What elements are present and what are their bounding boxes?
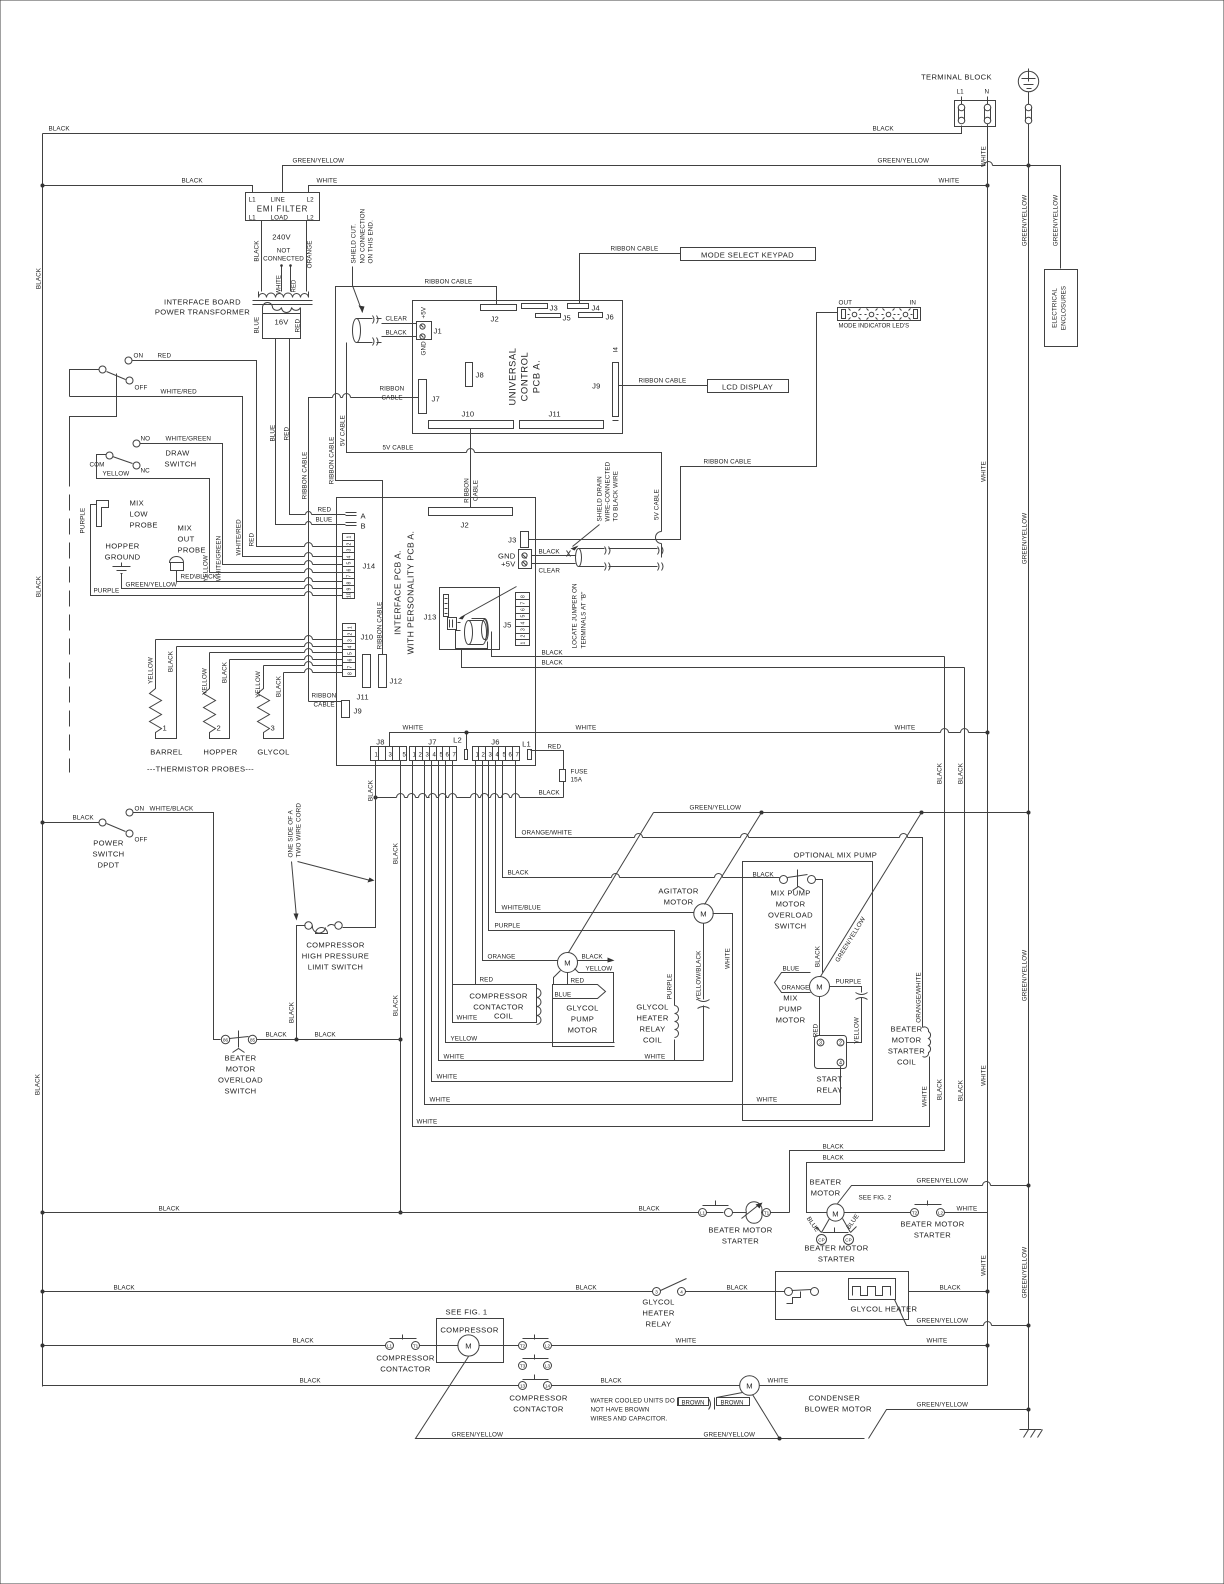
- svg-text:OUT: OUT: [839, 300, 853, 307]
- mix pump overload switch: [780, 876, 788, 884]
- connector J9 (interface): [342, 701, 350, 718]
- svg-text:240V: 240V: [272, 233, 291, 242]
- svg-text:MIX: MIX: [130, 499, 145, 508]
- shield connect X: [567, 551, 571, 557]
- svg-text:OVERLOAD: OVERLOAD: [768, 911, 813, 920]
- svg-text:BLACK: BLACK: [266, 1032, 288, 1039]
- svg-text:RED: RED: [295, 319, 302, 333]
- svg-text:WHITE: WHITE: [981, 1065, 988, 1086]
- connector J2 (interface): [429, 508, 513, 516]
- svg-text:J3: J3: [550, 304, 558, 313]
- svg-text:BLACK: BLACK: [753, 872, 775, 879]
- svg-text:85: 85: [250, 1038, 256, 1043]
- svg-text:L1: L1: [387, 1344, 393, 1349]
- J13 cylinder cap: [465, 621, 473, 645]
- svg-text:WHITE: WHITE: [939, 178, 960, 185]
- svg-text:+5V: +5V: [421, 306, 428, 318]
- svg-text:BEATER MOTOR: BEATER MOTOR: [708, 1226, 772, 1235]
- wire BLACK fuse to J8p1: [376, 782, 564, 798]
- svg-text:GREEN/YELLOW: GREEN/YELLOW: [917, 1402, 969, 1409]
- svg-text:RED: RED: [249, 533, 256, 547]
- svg-text:BLOWER MOTOR: BLOWER MOTOR: [805, 1405, 873, 1414]
- svg-text:PUMP: PUMP: [779, 1005, 802, 1014]
- svg-text:GREEN/YELLOW: GREEN/YELLOW: [1022, 513, 1029, 565]
- svg-text:13: 13: [520, 1384, 526, 1389]
- svg-text:CLEAR: CLEAR: [539, 568, 561, 575]
- svg-text:CONDENSER: CONDENSER: [809, 1394, 861, 1403]
- svg-text:J2: J2: [461, 521, 469, 530]
- svg-text:L2: L2: [545, 1344, 551, 1349]
- svg-text:BLACK: BLACK: [254, 240, 261, 262]
- svg-text:GREEN/YELLOW: GREEN/YELLOW: [704, 1432, 756, 1439]
- glycol heater thermostat: [785, 1288, 793, 1296]
- wire BLACK top bus L1: [43, 126, 962, 134]
- svg-text:1: 1: [347, 536, 353, 539]
- svg-text:MOTOR: MOTOR: [568, 1026, 598, 1035]
- svg-text:TWO WIRE CORD: TWO WIRE CORD: [296, 803, 303, 858]
- svg-text:A: A: [361, 512, 367, 521]
- svg-text:BROWN: BROWN: [721, 1401, 744, 1407]
- svg-text:ORANGE: ORANGE: [307, 241, 314, 269]
- svg-text:PURPLE: PURPLE: [495, 923, 521, 930]
- svg-text:BLACK: BLACK: [289, 1001, 296, 1023]
- svg-text:NO: NO: [141, 436, 151, 443]
- SEC2: [70, 353, 343, 774]
- svg-text:WHITE/GREEN: WHITE/GREEN: [166, 436, 212, 443]
- svg-text:WHITE/BLACK: WHITE/BLACK: [150, 806, 194, 813]
- svg-text:RIBBON CABLE: RIBBON CABLE: [302, 452, 309, 500]
- svg-text:L2: L2: [307, 197, 315, 204]
- svg-text:5V CABLE: 5V CABLE: [340, 415, 347, 446]
- wire pressure switch left down: [297, 926, 306, 1040]
- svg-text:LOAD: LOAD: [271, 215, 289, 222]
- wire ribbon cable univ J2 to interface J12: [336, 287, 497, 655]
- svg-text:ORANGE: ORANGE: [782, 985, 810, 992]
- wire green/yellow from beater motor: [838, 1186, 1029, 1204]
- svg-text:LOCATE JUMPER ON: LOCATE JUMPER ON: [572, 583, 579, 649]
- svg-text:GREEN/YELLOW: GREEN/YELLOW: [917, 1178, 969, 1185]
- glycol pump motor: [558, 953, 578, 973]
- overload element beater starter: [733, 1202, 763, 1224]
- svg-text:RED: RED: [480, 977, 494, 984]
- svg-text:BLACK: BLACK: [601, 1378, 623, 1385]
- svg-text:IN: IN: [910, 300, 917, 307]
- svg-text:RELAY: RELAY: [639, 1025, 665, 1034]
- connector J14 (interface): [343, 534, 355, 599]
- svg-text:BLACK: BLACK: [823, 1144, 845, 1151]
- connector J7 (universal): [419, 380, 427, 414]
- svg-text:RIBBON CABLE: RIBBON CABLE: [329, 437, 336, 485]
- svg-text:J11: J11: [357, 693, 369, 702]
- svg-text:OFF: OFF: [135, 837, 148, 844]
- wire left BLACK bus vertical: [42, 134, 44, 1387]
- svg-text:RED: RED: [284, 427, 291, 441]
- svg-text:3: 3: [819, 1041, 822, 1047]
- connector J8 (universal): [466, 363, 473, 387]
- svg-text:BLACK: BLACK: [576, 1285, 598, 1292]
- start relay: [815, 1036, 847, 1069]
- svg-text:PCB A.: PCB A.: [532, 360, 542, 394]
- svg-text:J3: J3: [508, 536, 516, 545]
- svg-text:MIX PUMP: MIX PUMP: [770, 889, 810, 898]
- glycol heater box: [776, 1272, 909, 1320]
- svg-text:BLACK: BLACK: [958, 762, 965, 784]
- wire RED L1 to fuse: [531, 751, 564, 770]
- svg-text:BLACK: BLACK: [508, 870, 530, 877]
- svg-text:COMPRESSOR: COMPRESSOR: [440, 1326, 499, 1335]
- svg-text:BLACK: BLACK: [159, 1206, 181, 1213]
- svg-text:ON: ON: [135, 806, 145, 813]
- wire ribbon cable univ J7 to interface J9: [309, 398, 419, 702]
- wire yellow glycol pump: [575, 969, 614, 1043]
- beater motor starter right contacts: [845, 1212, 911, 1214]
- svg-text:INTERFACE PCB A.: INTERFACE PCB A.: [393, 550, 403, 635]
- compressor motor M: [458, 1335, 479, 1356]
- beater motor overload switch: [221, 1035, 229, 1043]
- svg-text:2: 2: [348, 633, 354, 636]
- wire yellow capacitor to start relay: [847, 998, 862, 1043]
- svg-text:CABLE: CABLE: [382, 395, 403, 402]
- svg-text:STARTER: STARTER: [888, 1047, 925, 1056]
- svg-text:M: M: [816, 983, 823, 992]
- svg-text:BLACK: BLACK: [73, 815, 95, 822]
- interface PCB A. with personality PCB A.: [337, 498, 536, 766]
- svg-text:SHIELD DRAIN: SHIELD DRAIN: [597, 476, 604, 522]
- svg-text:WHITE: WHITE: [437, 1074, 458, 1081]
- svg-text:STARTER: STARTER: [914, 1231, 951, 1240]
- connector J3 (universal): [522, 304, 548, 309]
- wire GREEN/YELLOW from EMI line terminal: [283, 166, 1061, 269]
- J13 jumper plug: [448, 618, 457, 630]
- svg-text:CONTACTOR: CONTACTOR: [473, 1003, 524, 1012]
- svg-text:L1: L1: [957, 89, 965, 96]
- svg-text:WHITE: WHITE: [430, 1097, 451, 1104]
- wire GREEN/YELLOW bus: [1028, 124, 1030, 1430]
- svg-text:MOTOR: MOTOR: [892, 1036, 922, 1045]
- svg-text:J1: J1: [434, 327, 442, 336]
- beater motor M: [827, 1204, 844, 1221]
- svg-text:BLACK: BLACK: [958, 1079, 965, 1101]
- wire J6p4 WHITE/BLUE cascade: [496, 761, 694, 913]
- svg-text:CP: CP: [845, 1238, 851, 1243]
- capacitor mix pump: [856, 993, 868, 1000]
- svg-text:PURPLE: PURPLE: [80, 508, 87, 534]
- wire CLEAR to +5V: [532, 563, 576, 565]
- wire green/yellow compressor ground: [416, 1357, 1029, 1439]
- svg-text:3: 3: [655, 1290, 658, 1295]
- draw switch: [133, 440, 140, 447]
- wire GREEN/YELLOW motor ground bus: [654, 812, 1029, 814]
- svg-text:OVERLOAD: OVERLOAD: [218, 1076, 263, 1085]
- svg-text:HIGH PRESSURE: HIGH PRESSURE: [302, 952, 369, 961]
- wire WHITE/GREEN NO to J14: [140, 444, 343, 565]
- svg-text:NOT HAVE BROWN: NOT HAVE BROWN: [591, 1407, 650, 1414]
- svg-text:4: 4: [347, 556, 353, 559]
- J13 jumper header: [444, 595, 449, 617]
- svg-text:J7: J7: [428, 738, 436, 747]
- transformer 16V box: [263, 314, 301, 339]
- svg-text:START: START: [817, 1075, 843, 1084]
- power switch pole 1: [99, 366, 106, 373]
- svg-text:1: 1: [163, 724, 168, 733]
- wire transformer RED lead to A: [290, 339, 346, 515]
- svg-text:3: 3: [271, 724, 276, 733]
- svg-text:B: B: [361, 522, 366, 531]
- svg-text:8: 8: [347, 582, 353, 585]
- connector J9 (universal): [613, 363, 619, 417]
- svg-text:SEE FIG. 1: SEE FIG. 1: [446, 1308, 488, 1317]
- svg-text:WHITE: WHITE: [403, 725, 424, 732]
- wire pole1 bottom jog: [70, 374, 117, 471]
- svg-text:SWITCH: SWITCH: [92, 850, 124, 859]
- svg-text:M: M: [465, 1342, 472, 1351]
- svg-text:BLACK: BLACK: [276, 675, 283, 697]
- svg-text:BLACK: BLACK: [582, 954, 604, 961]
- wire RED\BLACK probe to J14: [177, 571, 343, 582]
- svg-text:HEATER: HEATER: [636, 1014, 669, 1023]
- node B: [346, 523, 357, 526]
- svg-text:MODE SELECT KEYPAD: MODE SELECT KEYPAD: [701, 251, 794, 260]
- wire J7p6 YELLOW cascade: [446, 761, 615, 1043]
- connector J6 (universal): [579, 313, 603, 318]
- svg-text:M: M: [700, 910, 707, 919]
- svg-text:4: 4: [521, 622, 527, 625]
- svg-text:PUMP: PUMP: [571, 1015, 594, 1024]
- wire transformer BLUE lead to B: [276, 339, 346, 525]
- connector J10 (interface): [343, 624, 356, 677]
- svg-text:5V CABLE: 5V CABLE: [383, 445, 414, 452]
- svg-text:8: 8: [521, 595, 527, 598]
- transformer core: [253, 301, 313, 305]
- svg-text:ON: ON: [134, 353, 144, 360]
- svg-text:GREEN/YELLOW: GREEN/YELLOW: [1022, 950, 1029, 1002]
- connector J1 (universal): [417, 322, 432, 340]
- svg-text:BLACK: BLACK: [386, 330, 408, 337]
- SEC7: [41, 803, 1031, 1441]
- mode indicator LEDs box: [838, 308, 921, 321]
- svg-text:MOTOR: MOTOR: [664, 898, 694, 907]
- svg-text:LCD DISPLAY: LCD DISPLAY: [722, 383, 773, 392]
- connector J8 (interface bottom): [371, 747, 407, 761]
- svg-text:L2: L2: [307, 215, 315, 222]
- connector J10 (universal): [429, 421, 514, 429]
- svg-text:BLACK: BLACK: [293, 1338, 315, 1345]
- svg-text:GLYCOL: GLYCOL: [566, 1004, 598, 1013]
- ground screw terminal: [1028, 92, 1030, 105]
- svg-text:GROUND: GROUND: [105, 553, 141, 562]
- svg-text:BLACK: BLACK: [542, 660, 564, 667]
- wire RED from ON to J14: [133, 361, 343, 547]
- svg-text:M: M: [746, 1382, 753, 1391]
- svg-text:RIBBON: RIBBON: [464, 478, 471, 503]
- svg-text:SWITCH: SWITCH: [224, 1087, 256, 1096]
- svg-text:BLACK: BLACK: [539, 790, 561, 797]
- transformer secondary: [263, 303, 301, 313]
- svg-text:YELLOW: YELLOW: [202, 668, 209, 695]
- svg-text:J8: J8: [476, 371, 484, 380]
- svg-text:5: 5: [521, 615, 527, 618]
- svg-text:COMPRESSOR: COMPRESSOR: [509, 1394, 568, 1403]
- svg-text:WIRES AND CAPACITOR.: WIRES AND CAPACITOR.: [591, 1416, 668, 1423]
- svg-text:WHITE: WHITE: [457, 1015, 478, 1022]
- wire WHITE from EMI L2 line to N: [309, 186, 988, 193]
- svg-text:OFF: OFF: [135, 385, 148, 392]
- electrical enclosures box: [1045, 270, 1078, 347]
- J13 bracket: [456, 631, 488, 649]
- svg-text:NO CONNECTION: NO CONNECTION: [360, 208, 367, 263]
- node L2: [465, 750, 468, 760]
- svg-text:YELLOW: YELLOW: [586, 966, 613, 973]
- glycol heater element: [849, 1279, 896, 1300]
- svg-text:WHITE: WHITE: [981, 1255, 988, 1276]
- wire WHITE/BLACK power on to overload switch: [133, 813, 221, 1040]
- wire WHITE J8p3 L2 to white bus: [390, 733, 988, 750]
- chassis ground bottom right: [1020, 1430, 1043, 1438]
- SEC5: [453, 805, 1031, 1121]
- wire J7p4 WHITE cascade: [432, 761, 733, 1082]
- svg-text:COIL: COIL: [643, 1036, 662, 1045]
- svg-text:BLUE: BLUE: [316, 517, 333, 524]
- svg-text:BLACK: BLACK: [639, 1206, 661, 1213]
- svg-text:CP: CP: [818, 1238, 824, 1243]
- compressor contactor coil: [453, 985, 537, 1023]
- svg-text:J8: J8: [376, 738, 384, 747]
- svg-text:ORANGE/WHITE: ORANGE/WHITE: [916, 972, 923, 1023]
- svg-text:L2: L2: [938, 1211, 944, 1216]
- LCD display: [708, 380, 789, 393]
- svg-text:POWER: POWER: [93, 839, 124, 848]
- svg-text:RED: RED: [292, 279, 298, 292]
- svg-text:5: 5: [348, 652, 354, 655]
- svg-text:L1: L1: [700, 1211, 706, 1216]
- svg-text:10: 10: [347, 592, 353, 598]
- wires thermistors to interface J10: [156, 636, 343, 640]
- wire ribbon cable J4 to keypad: [580, 254, 681, 304]
- SEC1: [302, 208, 921, 708]
- svg-text:4: 4: [680, 1290, 683, 1295]
- wire purple mix pump to capacitor: [830, 987, 862, 993]
- compressor contactor right T2 L2: [519, 1342, 527, 1350]
- svg-text:BLACK: BLACK: [315, 1032, 337, 1039]
- svg-text:SHIELD CUT.: SHIELD CUT.: [351, 224, 358, 264]
- svg-text:BEATER MOTOR: BEATER MOTOR: [804, 1244, 868, 1253]
- wire black overload to J8p5 vertical: [257, 1039, 401, 1041]
- svg-text:WHITE: WHITE: [981, 461, 988, 482]
- svg-text:STARTER: STARTER: [818, 1255, 855, 1264]
- svg-text:GREEN/YELLOW: GREEN/YELLOW: [293, 158, 345, 165]
- svg-text:BLACK: BLACK: [815, 945, 822, 967]
- optional mix pump box: [743, 862, 873, 1121]
- svg-text:PURPLE: PURPLE: [836, 979, 862, 986]
- capacitor agitator: [698, 1000, 710, 1009]
- svg-text:INTERFACE BOARD: INTERFACE BOARD: [164, 298, 241, 307]
- svg-text:BLACK: BLACK: [539, 549, 561, 556]
- svg-text:6: 6: [521, 608, 527, 611]
- svg-text:1: 1: [348, 626, 354, 629]
- svg-text:4: 4: [348, 646, 354, 649]
- svg-text:TERMINALS AT "B": TERMINALS AT "B": [581, 592, 588, 649]
- wire black relay to heater: [686, 1291, 785, 1293]
- svg-text:GREEN/YELLOW: GREEN/YELLOW: [917, 1318, 969, 1325]
- glycol pump box: [553, 999, 615, 1047]
- connector J11 (universal): [520, 421, 604, 429]
- mix low probe: [97, 501, 109, 527]
- compressor high pressure limit switch: [305, 922, 312, 929]
- wire WHITE bus from N: [987, 124, 989, 1386]
- svg-text:RIBBON: RIBBON: [380, 386, 405, 393]
- svg-text:YELLOW: YELLOW: [854, 1017, 861, 1044]
- svg-text:RIBBON CABLE: RIBBON CABLE: [639, 378, 687, 385]
- wire J7p5 WHITE cascade: [439, 761, 704, 1061]
- svg-text:BLACK: BLACK: [873, 126, 895, 133]
- svg-text:WHITE: WHITE: [576, 725, 597, 732]
- svg-text:POWER TRANSFORMER: POWER TRANSFORMER: [155, 308, 250, 317]
- svg-text:J9: J9: [592, 382, 600, 391]
- svg-text:CONNECTED: CONNECTED: [263, 256, 304, 263]
- svg-text:MOTOR: MOTOR: [776, 1016, 806, 1025]
- svg-text:GLYCOL: GLYCOL: [257, 748, 289, 757]
- svg-text:BARREL: BARREL: [150, 748, 183, 757]
- terminal block: [955, 101, 996, 127]
- svg-text:LIMIT SWITCH: LIMIT SWITCH: [308, 963, 364, 972]
- shield tube at interface J3: [576, 549, 582, 567]
- svg-text:GREEN/YELLOW: GREEN/YELLOW: [126, 582, 178, 589]
- svg-text:7: 7: [347, 575, 353, 578]
- svg-text:RIBBON CABLE: RIBBON CABLE: [425, 279, 473, 286]
- svg-text:PROBE: PROBE: [130, 521, 158, 530]
- svg-text:RIBBON: RIBBON: [312, 693, 337, 700]
- svg-text:BLACK: BLACK: [168, 650, 175, 672]
- thermistor hopper: [204, 653, 230, 739]
- brown capacitor condenser: [717, 1393, 743, 1398]
- svg-text:YELLOW/BLACK: YELLOW/BLACK: [696, 950, 703, 1001]
- svg-text:GREEN/YELLOW: GREEN/YELLOW: [1022, 1247, 1029, 1299]
- svg-text:7: 7: [516, 753, 520, 759]
- svg-text:RELAY: RELAY: [645, 1320, 671, 1329]
- svg-text:CONTACTOR: CONTACTOR: [513, 1405, 564, 1414]
- wire BLACK from J13 to right bus 1: [492, 632, 945, 657]
- wire J6p3 PURPLE cascade: [489, 761, 675, 1006]
- svg-text:CLEAR: CLEAR: [386, 316, 408, 323]
- fuse 15A: [560, 770, 566, 782]
- svg-text:7: 7: [348, 666, 354, 669]
- wire YELLOW COM to J14: [97, 455, 343, 573]
- condenser blower motor: [740, 1376, 760, 1396]
- wire J6p1 RED cascade: [476, 761, 537, 985]
- svg-text:STARTER: STARTER: [722, 1237, 759, 1246]
- svg-text:RED: RED: [158, 353, 172, 360]
- wire J6p2 ORANGE cascade: [483, 761, 558, 961]
- svg-text:PURPLE: PURPLE: [667, 974, 674, 1000]
- svg-text:HOPPER: HOPPER: [203, 748, 237, 757]
- svg-text:BLACK: BLACK: [937, 762, 944, 784]
- svg-text:J12: J12: [390, 677, 403, 686]
- svg-text:BLUE: BLUE: [270, 425, 277, 442]
- svg-text:J5: J5: [563, 314, 571, 323]
- svg-text:J11: J11: [549, 410, 561, 419]
- svg-text:6: 6: [509, 753, 513, 759]
- wire J7p7 WHITE cascade: [453, 761, 537, 1023]
- svg-text:SEE FIG. 2: SEE FIG. 2: [859, 1195, 892, 1202]
- svg-text:EMI FILTER: EMI FILTER: [257, 205, 308, 214]
- svg-text:RELAY: RELAY: [817, 1086, 843, 1095]
- svg-text:T1: T1: [413, 1344, 419, 1349]
- svg-text:BLUE: BLUE: [783, 966, 800, 973]
- svg-text:COMPRESSOR: COMPRESSOR: [306, 941, 365, 950]
- connector GND +5V (interface): [519, 550, 532, 569]
- svg-text:OPTIONAL MIX PUMP: OPTIONAL MIX PUMP: [794, 851, 878, 860]
- svg-text:RED: RED: [548, 744, 562, 751]
